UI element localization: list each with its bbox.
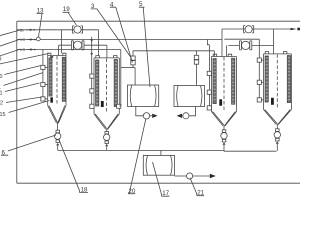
leader 19 [63, 12, 77, 25]
V4 fitting a [257, 58, 263, 62]
wire: V3 fitting pipe [208, 45, 210, 108]
svg-text:5: 5 [139, 1, 143, 8]
left fan leader 12 [6, 97, 42, 103]
leader 21 [190, 178, 204, 196]
arrow at right edge [291, 28, 297, 30]
stream arrow VC1 [28, 39, 31, 41]
V4 centerline [276, 54, 278, 108]
wire: V3 cone to pump [223, 126, 225, 130]
V2 black mark [101, 101, 104, 107]
V3 fitting a [207, 71, 211, 75]
V2 top nozzle right [114, 56, 118, 58]
V4 fitting b [257, 80, 263, 84]
V3 fitting b [207, 90, 211, 94]
left fan leader to V1 nozzle [0, 54, 49, 64]
V4 right hatch bar [287, 56, 290, 103]
wire: V4 fitting pipe [258, 39, 260, 100]
V2 right hatch bar [114, 60, 117, 107]
vessel V2 shell [94, 58, 119, 114]
tank T3 [143, 155, 174, 175]
V4 fitting c [257, 98, 263, 102]
wire: V1 fitting pipe [42, 50, 44, 99]
svg-text:9: 9 [0, 57, 2, 63]
V4 black mark [271, 98, 274, 105]
valve 2 [71, 41, 84, 50]
leader 20 [128, 119, 146, 194]
wire: V1 cone to pump [57, 123, 59, 130]
line y=50.8 from fitting area to right section [133, 51, 214, 53]
valve A [244, 26, 254, 33]
left fan leader to VC1 label [0, 39, 20, 46]
V3 centerline [223, 57, 225, 111]
V1 centerline [56, 56, 58, 105]
tank T1 [128, 85, 159, 107]
stream arrow VC2 [28, 49, 31, 51]
leader 4 [110, 7, 133, 62]
svg-text:6: 6 [2, 149, 6, 156]
wire: VC2 down pipe at 120.8 [119, 50, 121, 107]
wire: riser x222 [221, 29, 223, 57]
svg-text:18: 18 [81, 187, 88, 194]
V3 black mark [219, 99, 222, 105]
stream arrow B [26, 29, 30, 31]
V2 fitting a [90, 74, 94, 78]
V2 centerline [106, 59, 108, 113]
left fan leader to VC2 label [0, 49, 20, 56]
V1 top dark dash [50, 56, 53, 57]
wire: tank2 bottom outlet [189, 107, 196, 116]
V2 left hatch bar [96, 60, 99, 106]
double fitting 3/4 above tank1 [131, 53, 135, 68]
V3 top nozzle left [213, 54, 217, 56]
pump P2 [104, 131, 110, 150]
inlet tick arrow at x91.5 lower [91, 53, 93, 56]
V1 top nozzle left [48, 53, 51, 55]
svg-text:15: 15 [0, 112, 6, 118]
leader 5 [139, 7, 150, 87]
wire: zigzag from VC1 to V3 fitting pipe [207, 40, 209, 45]
V1 black mark [50, 97, 53, 102]
arrow right after P1b [150, 115, 152, 117]
pump P4 [274, 129, 280, 151]
pump P1 [55, 130, 61, 150]
svg-text:4: 4 [110, 1, 114, 8]
header right B2 [222, 28, 291, 30]
arrow left after P2b [181, 115, 184, 117]
wire: riser to bottom tank [160, 150, 162, 155]
left fan leader 10 [4, 66, 41, 75]
wire: horizontal to tank1 stem [121, 67, 135, 69]
left fan leader 1a [3, 73, 43, 86]
wire: bottom tank outlet [175, 175, 187, 177]
wire: riser into tank1 [134, 68, 136, 86]
leader 13 [37, 14, 44, 37]
V2 fitting c [90, 104, 94, 108]
double fitting above tank2 [194, 55, 198, 64]
wire: drop x226.5 to vessel3 [226, 45, 228, 56]
V1 fitting a [41, 65, 48, 69]
wire: drop to vessel2 top center [106, 45, 108, 58]
V4 top nozzle right [283, 52, 287, 54]
node circle 13 on VC1 [36, 37, 40, 41]
V2 top nozzle left [96, 56, 100, 58]
wire: drop from B header to vessel1 top [61, 30, 63, 53]
V4 cone [264, 110, 292, 126]
V4 top nozzle left [265, 52, 269, 54]
svg-text:12: 12 [0, 101, 3, 107]
wire+arrow out [193, 175, 210, 177]
leader 6 [1, 135, 56, 155]
valve 19 [72, 26, 82, 33]
V3 top nozzle right [228, 54, 232, 56]
svg-text:17: 17 [162, 190, 169, 197]
wire: stem with double fitting above tank2 [196, 51, 198, 86]
pump P3 [221, 130, 227, 151]
V1 fitting b [41, 82, 48, 86]
wire: V2 cone to pump [106, 129, 108, 131]
V3 left hatch bar [213, 59, 216, 104]
svg-text:3: 3 [91, 3, 95, 10]
V3 cone [211, 112, 236, 127]
svg-text:10: 10 [0, 74, 3, 80]
header VC1 line [17, 39, 222, 41]
V2 right bottom fitting [117, 104, 121, 108]
wire: tank1 bottom outlet [136, 107, 144, 116]
V3 right hatch bar [232, 58, 235, 104]
V1 left hatch bar [49, 58, 52, 96]
leader 3 [91, 9, 131, 58]
pump P2b [183, 113, 189, 119]
valve B [239, 41, 251, 50]
frame border [17, 21, 300, 183]
V1 right hatch bar [62, 57, 65, 101]
left fan leader to B label [0, 30, 20, 36]
wire: drop x274.5 from B2 to vessel4 [273, 29, 275, 54]
header B line [17, 29, 99, 31]
left fan leader 1b [5, 83, 40, 92]
V2 fitting b [90, 89, 94, 93]
svg-text:19: 19 [63, 6, 70, 13]
leader 18 [59, 140, 88, 193]
pump P5 [187, 173, 193, 179]
svg-text:Bk: Bk [20, 28, 25, 33]
V2 cone [94, 114, 119, 130]
V1 fitting c [41, 97, 48, 101]
leader 17 [153, 162, 170, 196]
header y39.2 right [224, 38, 259, 40]
header VC2 line [17, 49, 121, 51]
vessel V1 shell [48, 56, 66, 106]
svg-text:13: 13 [37, 7, 44, 14]
pump P1b [143, 113, 149, 119]
wire: drop from B header end to vessel2 top [98, 30, 100, 56]
V1 cone [48, 106, 66, 124]
vessel V3 shell [211, 57, 236, 112]
svg-text:21: 21 [197, 190, 204, 197]
V3 fitting c [207, 106, 211, 110]
tank T2 [174, 86, 205, 107]
svg-text:VC: VC [20, 47, 26, 52]
valve 2 line between vessel tops [59, 44, 107, 46]
valve B line [228, 44, 273, 46]
svg-text:20: 20 [128, 188, 135, 195]
V4 left hatch bar [265, 56, 268, 102]
inlet tick arrow at x91.5 upper [91, 37, 93, 40]
wire: V4 cone to pump [276, 125, 278, 129]
wire: drop x214.3 to vessel3 top [213, 51, 215, 57]
svg-text:VC: VC [20, 37, 26, 42]
bottom manifold [58, 149, 277, 152]
left fan leader 15 [9, 101, 50, 113]
wire: drop to vessel1 top center [58, 45, 60, 55]
V1 top nozzle right [63, 53, 66, 55]
wire: V2 fitting pipe [91, 40, 93, 107]
svg-text:1: 1 [0, 91, 3, 97]
vessel V4 shell [264, 54, 292, 110]
